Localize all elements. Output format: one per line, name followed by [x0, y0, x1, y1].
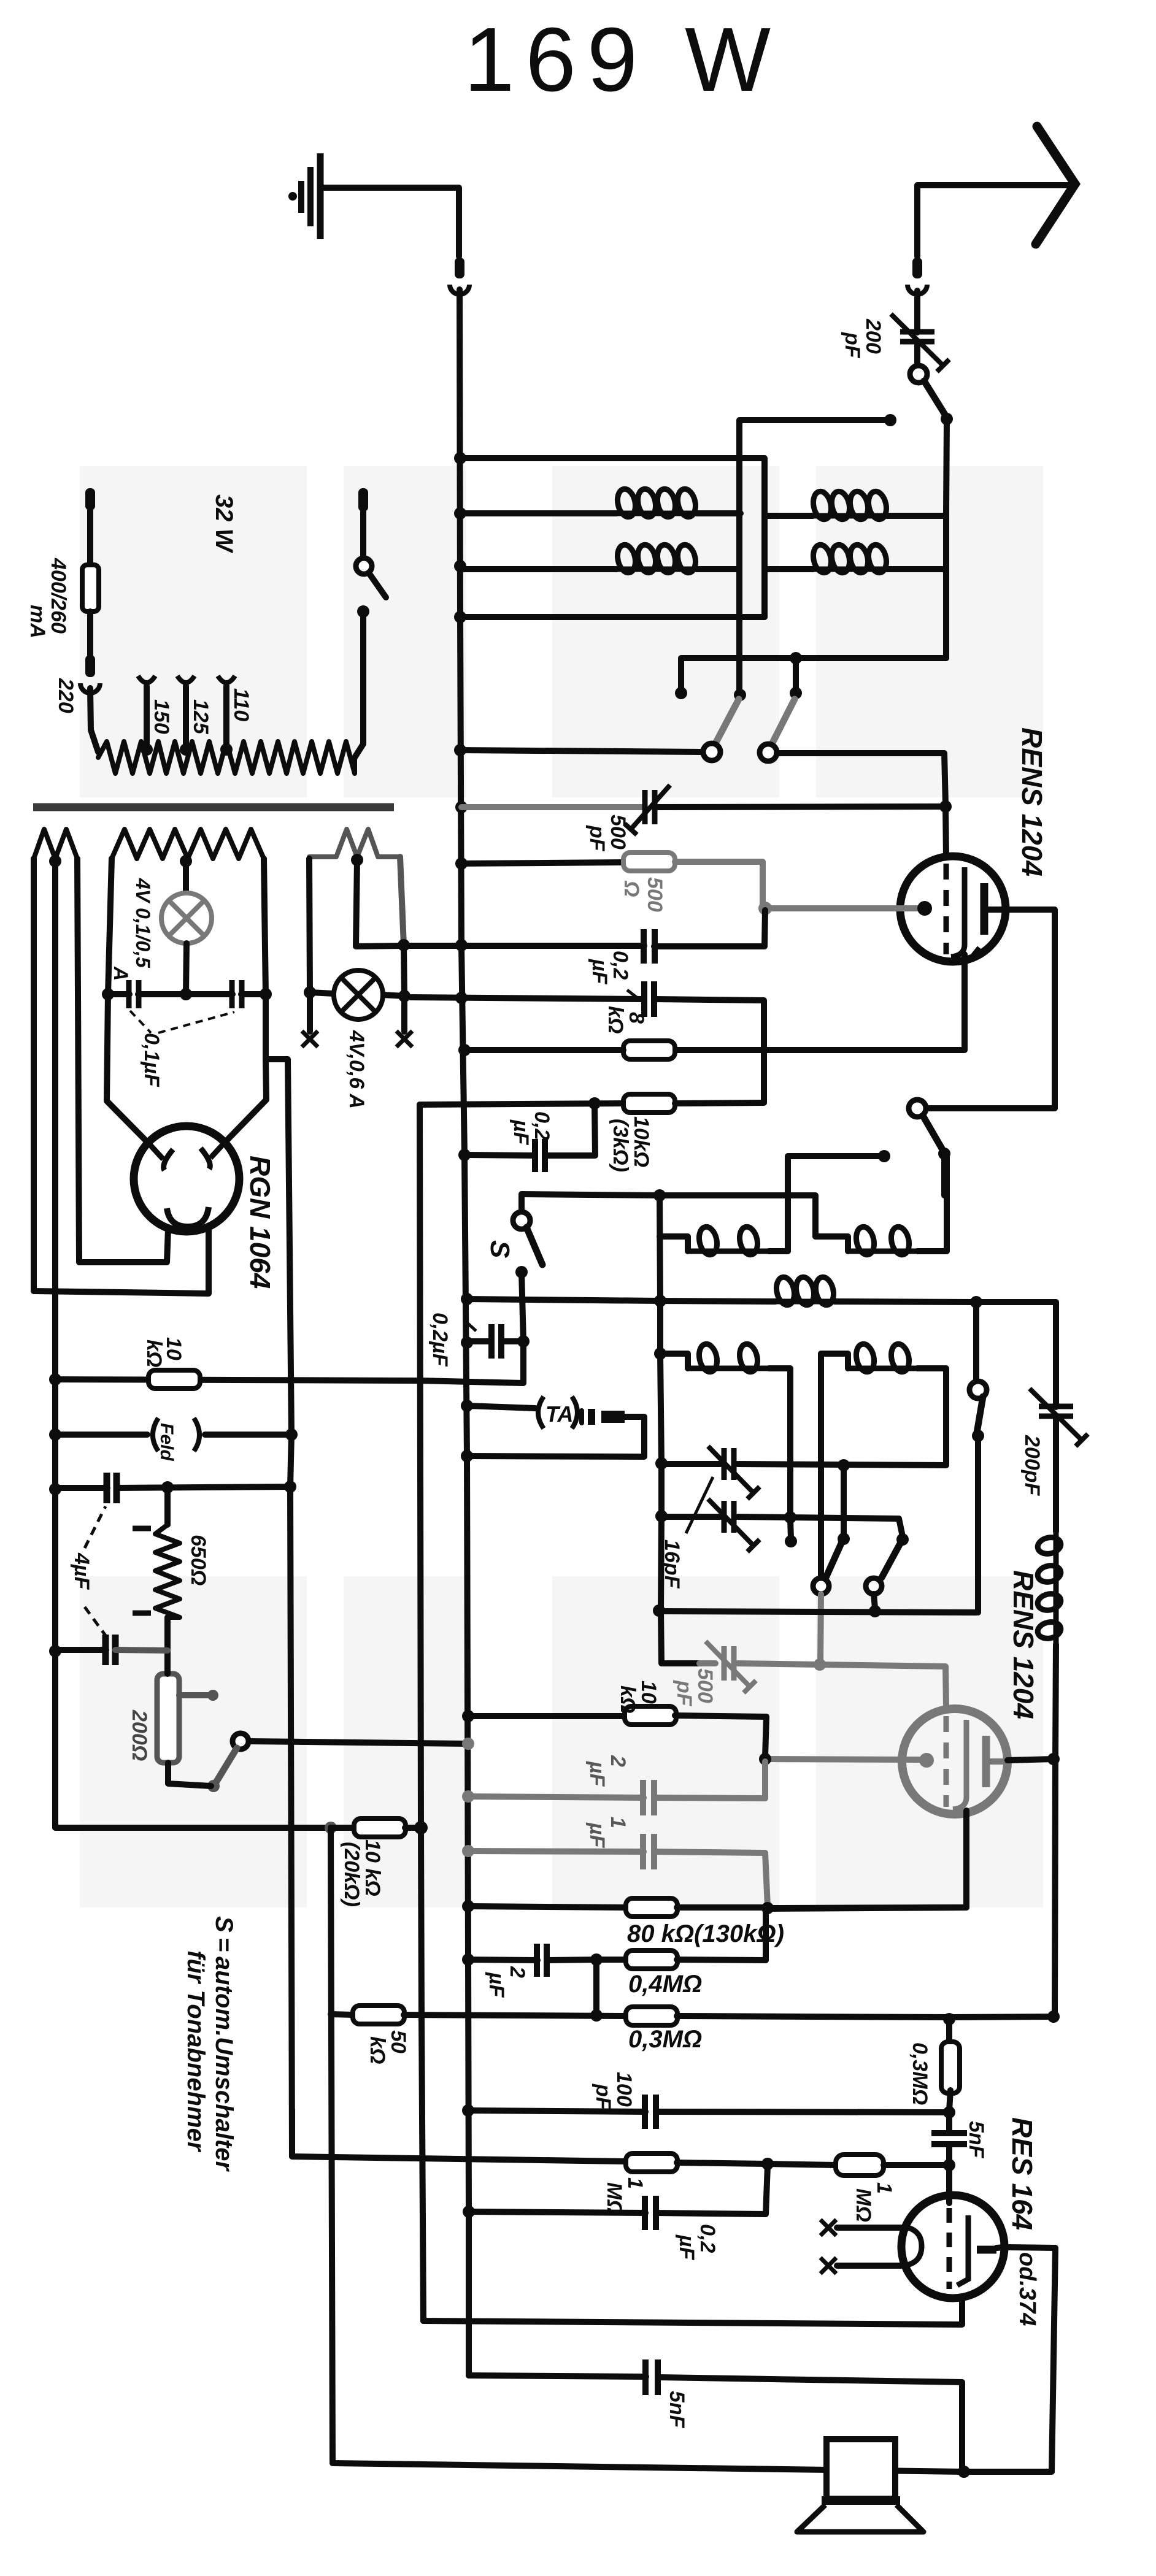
coil L1b: [765, 513, 813, 519]
grid wire RENS1: [765, 905, 918, 911]
svg-text:1: 1: [606, 1817, 630, 1828]
pickup switch rail down: [331, 1828, 333, 2461]
svg-text:S: S: [485, 1240, 515, 1258]
wave switch lever 2: [772, 699, 795, 744]
node y1073: [790, 652, 802, 664]
svg-text:220: 220: [54, 678, 77, 713]
RGN filament wires: [107, 994, 150, 1144]
pot bottom lead: [168, 1763, 211, 1786]
anode wire RENS1 to switch: [928, 910, 1055, 1108]
svg-text:für Tonabnehmer: für Tonabnehmer: [182, 1950, 209, 2153]
cathode RES164: [957, 2215, 968, 2285]
wire S line y2841: [249, 1741, 468, 1744]
wire from detector rail: [292, 2110, 626, 2161]
main heater leads: [108, 859, 112, 994]
svg-text:650Ω: 650Ω: [187, 1535, 210, 1585]
svg-text:16pF: 16pF: [660, 1539, 684, 1589]
svg-text:100: 100: [612, 2072, 636, 2107]
svg-text:2: 2: [506, 1966, 529, 1978]
svg-text:200Ω: 200Ω: [128, 1709, 151, 1761]
trimmer capacitor 500pF: [642, 790, 648, 824]
svg-text:pF: pF: [585, 825, 609, 852]
tube RES 164: [901, 2195, 1004, 2298]
anode RES164: [977, 2246, 996, 2254]
wire bus y2929: [462, 1790, 474, 1803]
speaker wire: [333, 2463, 1050, 2472]
anode wire RENS2: [1008, 1759, 1054, 1760]
wire 0,1uF line: [108, 991, 129, 997]
wire 4uF b line: [49, 1645, 61, 1657]
capacitor 0,2 uF (AF): [642, 2196, 648, 2230]
tube RENS 1204 (2): [902, 1709, 1008, 1814]
svg-text:MΩ: MΩ: [852, 2188, 875, 2222]
wire bus y2118: [461, 1293, 473, 1305]
svg-text:kΩ: kΩ: [366, 2036, 389, 2064]
svg-text:(20kΩ): (20kΩ): [340, 1842, 363, 1907]
wire bus to B riser y747: [454, 452, 466, 464]
trimmer 200pF (osc): [1039, 1404, 1073, 1409]
wire bus y3018: [462, 1845, 474, 1857]
resistor 10 kOhm (heater line): [148, 1370, 200, 1389]
resistor 80 kOhm: [626, 1898, 677, 1917]
capacitor 2uF (AF): [534, 1944, 540, 1977]
wire bus y1006: [454, 611, 466, 623]
svg-text:110: 110: [229, 688, 253, 721]
stub end: [785, 1535, 797, 1547]
capacitor 0,1uF a: [126, 980, 132, 1008]
svg-text:10 kΩ: 10 kΩ: [361, 1839, 384, 1896]
wire y2980 to 10k20k: [331, 1825, 355, 1831]
svg-text:TA: TA: [545, 1401, 573, 1427]
wire ground to bus: [323, 188, 459, 256]
capacitor 4uF b: [102, 1635, 109, 1665]
wire trimmer to coil: [1053, 1416, 1059, 1531]
node end y685: [884, 414, 896, 426]
wire y1073: [681, 658, 946, 691]
wire bus y1408: [455, 857, 468, 870]
cathode RENS1: [951, 867, 965, 957]
rectifier heater leads: [34, 859, 209, 1294]
tube RGN 1064: [134, 1126, 239, 1232]
wire switch to IF vertical: [946, 419, 947, 658]
filament RES164: [902, 2226, 922, 2266]
resistor 1 MOhm (grid leak): [768, 2164, 836, 2165]
lamp terminals x: [307, 992, 313, 1032]
svg-text:500: 500: [606, 815, 630, 849]
ground symbol: [288, 192, 297, 201]
resistor 50 kOhm: [353, 2006, 404, 2024]
secondary winding (lamp): [309, 829, 400, 857]
resistor 8 kOhm: [623, 1041, 675, 1059]
svg-text:1: 1: [873, 2182, 896, 2194]
resistor 10 kOhm (grid RENS2): [625, 1706, 676, 1725]
svg-text:Ω: Ω: [620, 880, 643, 897]
resistor 10kOhm(3kOhm): [623, 1094, 675, 1113]
fuse plug top: [85, 488, 95, 510]
svg-text:pF: pF: [591, 2083, 615, 2110]
svg-text:0,1µF: 0,1µF: [140, 1033, 163, 1087]
node 10k3k: [588, 1097, 601, 1110]
svg-text:4V,0,6 A: 4V,0,6 A: [345, 1030, 368, 1109]
pickup plug: [579, 1411, 584, 1423]
antenna plug: [912, 258, 922, 278]
B+ rail from rectifier: [266, 1059, 292, 2156]
wire bus y1316: [455, 801, 468, 813]
wire y3287 (50k line): [593, 1960, 599, 2015]
wire y1629: [455, 992, 468, 1004]
vertical osc rail: [653, 1189, 666, 1202]
svg-text:RES 164: RES 164: [1006, 2117, 1038, 2230]
cathode/bottom wire RES164: [423, 2298, 962, 2325]
svg-text:µF: µF: [585, 1822, 609, 1849]
wire bus y2189: [461, 1336, 473, 1349]
wire bus y2292: [461, 1400, 473, 1412]
watermark band 1: [80, 466, 307, 797]
resistor 1 MOhm: [626, 2153, 677, 2172]
svg-text:4µF: 4µF: [70, 1552, 93, 1590]
capacitor 4uF a: [104, 1473, 110, 1503]
wire y2121 with coil: [654, 1295, 666, 1307]
resistor 650 Ohm (zigzag): [164, 1487, 171, 1525]
svg-text:500: 500: [693, 1668, 717, 1703]
svg-text:RENS 1204: RENS 1204: [1016, 727, 1048, 876]
wire 500pF line (gray): [699, 1660, 715, 1666]
svg-text:pF: pF: [841, 332, 864, 359]
riser L4b left: [818, 1354, 824, 1579]
RGN filament hooks: [150, 1144, 173, 1170]
svg-text:10: 10: [637, 1681, 660, 1704]
svg-text:200: 200: [861, 318, 885, 354]
svg-text:200pF: 200pF: [1020, 1435, 1044, 1496]
svg-text:µF: µF: [588, 959, 611, 985]
anode wire RES164: [1006, 2247, 1055, 2472]
svg-text:RENS 1204: RENS 1204: [1008, 1570, 1039, 1719]
capacitor 5nF: [931, 2130, 967, 2136]
coil L2a: [454, 560, 466, 572]
trimmer capacitor 200pF (antenna): [900, 329, 934, 335]
coil L4b: [821, 1354, 848, 1368]
svg-text:80 kΩ(130kΩ): 80 kΩ(130kΩ): [627, 1920, 784, 1947]
svg-text:10: 10: [162, 1337, 185, 1360]
plug on bus: [455, 258, 464, 278]
svg-text:0,2: 0,2: [530, 1111, 553, 1140]
svg-text:µF: µF: [485, 1972, 508, 1998]
wave switch lever 1: [715, 699, 739, 743]
wire y1947: [522, 1194, 815, 1236]
switch S2 (pickup): [233, 1733, 249, 1749]
capacitor (0,2uF) on y1543: [641, 929, 647, 964]
svg-text:µF: µF: [585, 1761, 609, 1787]
capacitor 0,2uF (S): [467, 1338, 491, 1344]
potentiometer 200 Ohm: [157, 1674, 179, 1763]
capacitor 0,1uF b: [229, 980, 235, 1008]
switch (anode RENS1): [909, 1100, 926, 1117]
cathode wire RENS2: [770, 1811, 966, 1909]
svg-text:pF: pF: [672, 1680, 696, 1707]
wire y1543 to grid node: [455, 939, 468, 951]
trimmer 500pF (osc): [722, 1646, 727, 1681]
wire bus y1223: [454, 744, 466, 756]
tube RENS 1204 (1): [900, 856, 1006, 962]
svg-text:kΩ: kΩ: [616, 1685, 639, 1713]
capacitor 0,2uF (y1629): [641, 981, 647, 1017]
svg-text:5nF: 5nF: [965, 2121, 988, 2159]
switch contact 2: [760, 744, 777, 761]
coil RENS grid (osc): [1054, 1531, 1059, 1644]
svg-text:400/260: 400/260: [47, 558, 70, 634]
resistor 10kOhm (20kOhm): [354, 1819, 406, 1837]
fuse 400/260 mA: [82, 565, 99, 611]
svg-text:150: 150: [150, 699, 173, 734]
wire bus y3108: [462, 1900, 474, 1912]
resistor 0,3 MOhm: [626, 2007, 677, 2025]
fuse plug bottom: [85, 655, 95, 677]
wire 500R to grid node: [675, 862, 763, 907]
capacitor 100 pF: [642, 2095, 648, 2129]
lamp 4V 0,6A leads: [309, 859, 310, 992]
primary winding (zigzag): [98, 742, 355, 773]
svg-text:2: 2: [606, 1755, 630, 1767]
wire 0,2uF AF line: [463, 2206, 475, 2218]
svg-text:500: 500: [643, 877, 666, 912]
svg-text:kΩ: kΩ: [604, 1006, 627, 1033]
grid node: [758, 902, 772, 915]
anode RENS1: [981, 883, 988, 935]
svg-text:0,3MΩ: 0,3MΩ: [908, 2042, 931, 2105]
svg-text:mA: mA: [26, 605, 49, 638]
cathode wire RENS1 to 8k line: [677, 954, 965, 1050]
wire bus y2798: [462, 1710, 474, 1722]
cathode RENS2: [953, 1720, 966, 1809]
wire osc vertical: [660, 1195, 699, 1663]
power switch: [356, 558, 372, 574]
wire y2387 (osc line 1): [655, 1457, 668, 1470]
svg-text:169 W: 169 W: [464, 9, 782, 110]
wire y685: [741, 417, 890, 423]
svg-text:4V 0,1/0,5: 4V 0,1/0,5: [132, 878, 154, 968]
wire fuse to primary: [90, 688, 98, 752]
speaker: [827, 2439, 895, 2499]
grid wire RENS2: [765, 1759, 920, 1760]
svg-text:µF: µF: [675, 2234, 698, 2261]
svg-text:1: 1: [623, 2177, 647, 2189]
svg-text:0,2µF: 0,2µF: [428, 1313, 452, 1367]
capacitor 1uF: [640, 1834, 646, 1869]
RGN anode cup: [167, 1207, 209, 1227]
svg-text:0,2: 0,2: [696, 2224, 719, 2253]
wire y2474 (osc line 2): [655, 1510, 668, 1522]
svg-text:od.374: od.374: [1014, 2252, 1040, 2326]
wire 4uF/650 line: [49, 1483, 61, 1495]
wire bus y1883: [458, 1149, 471, 1161]
coil L4a: [654, 1347, 666, 1360]
capacitor 2uF: [640, 1780, 646, 1815]
svg-text:Feld: Feld: [156, 1423, 177, 1461]
anode RENS2: [982, 1736, 990, 1787]
node on left rail: [49, 1373, 61, 1386]
coil L1a: [454, 507, 466, 519]
vertical A: [736, 420, 742, 693]
switch vertical (osc out): [969, 1381, 987, 1398]
resistor 0,3 MOhm (vertical): [946, 2019, 952, 2046]
anode lead RES164: [996, 2247, 1004, 2248]
node grid top RENS1: [939, 800, 952, 813]
svg-text:32 W: 32 W: [210, 494, 237, 554]
power switch plug: [358, 488, 368, 512]
secondary winding (main heater): [112, 829, 264, 859]
svg-text:10kΩ: 10kΩ: [630, 1116, 653, 1167]
S stub down: [421, 1272, 523, 1383]
pilot lamp 4V 0,6A: [334, 970, 383, 1019]
left heater rail: [55, 861, 331, 1828]
capacitor 5nF (tone): [642, 2359, 649, 2395]
transformer core: [33, 803, 394, 811]
top electrode lead: [946, 807, 946, 857]
grid lead into tube: [946, 2165, 952, 2203]
svg-text:(3kΩ): (3kΩ): [609, 1119, 632, 1172]
coil L2b: [765, 566, 813, 572]
wire y2627: [653, 1604, 665, 1617]
wire y2250 to heater rail: [55, 1379, 421, 1381]
svg-text:0,2: 0,2: [609, 951, 632, 979]
svg-text:A: A: [110, 966, 132, 981]
secondary winding (rectifier heater): [34, 829, 77, 859]
pickup TA: [538, 1397, 544, 1428]
stub node: [675, 687, 687, 699]
svg-text:S = autom.Umschalter: S = autom.Umschalter: [210, 1916, 237, 2172]
svg-text:0,4MΩ: 0,4MΩ: [628, 1971, 702, 1998]
pilot lamp 4V 0,1/0,5 A: [183, 861, 189, 894]
main bus vertical: [460, 289, 469, 2375]
switch (antenna): [910, 366, 927, 383]
svg-text:125: 125: [189, 699, 212, 735]
svg-text:0,3MΩ: 0,3MΩ: [628, 2026, 702, 2053]
lamp rail riser: [356, 860, 402, 946]
left vertical rail: [420, 1105, 423, 2321]
svg-text:50: 50: [387, 2030, 410, 2053]
taps: [138, 676, 155, 683]
wire 10k3k line: [420, 1103, 623, 1105]
wire contact2 to grid riser: [777, 753, 946, 805]
svg-text:5nF: 5nF: [665, 2391, 688, 2429]
watermark band 2: [80, 1576, 307, 1907]
switch S: [518, 1195, 525, 1214]
svg-text:RGN 1064: RGN 1064: [244, 1156, 276, 1289]
coil L3a: [660, 1236, 688, 1251]
resistor 500 Ohm: [623, 853, 675, 871]
trimmer 16pF b: [722, 1501, 727, 1533]
antenna: [917, 182, 1069, 188]
switch lever (band): [896, 1533, 909, 1546]
switch osc lever-vertical: [841, 1465, 847, 1536]
filament terminal x: [820, 2258, 836, 2274]
coil L3b: [815, 1236, 848, 1251]
filament terminal x: [820, 2220, 836, 2236]
capacitor 0,2uF (grid block): [532, 1139, 538, 1172]
wire 100pF line: [462, 2104, 474, 2117]
wire bus corner to 5nF: [469, 2375, 646, 2377]
trimmer 16pF a: [722, 1448, 727, 1480]
resistor 0,4 MOhm: [596, 1957, 626, 1963]
wire bus y3195: [462, 1953, 474, 1966]
wire Feld line: [49, 1428, 61, 1441]
antenna lead: [914, 185, 920, 256]
svg-text:µF: µF: [509, 1119, 533, 1146]
switch contact 1: [703, 743, 720, 761]
wire TA loop: [467, 1417, 644, 1457]
pot wiper: [179, 1692, 209, 1698]
